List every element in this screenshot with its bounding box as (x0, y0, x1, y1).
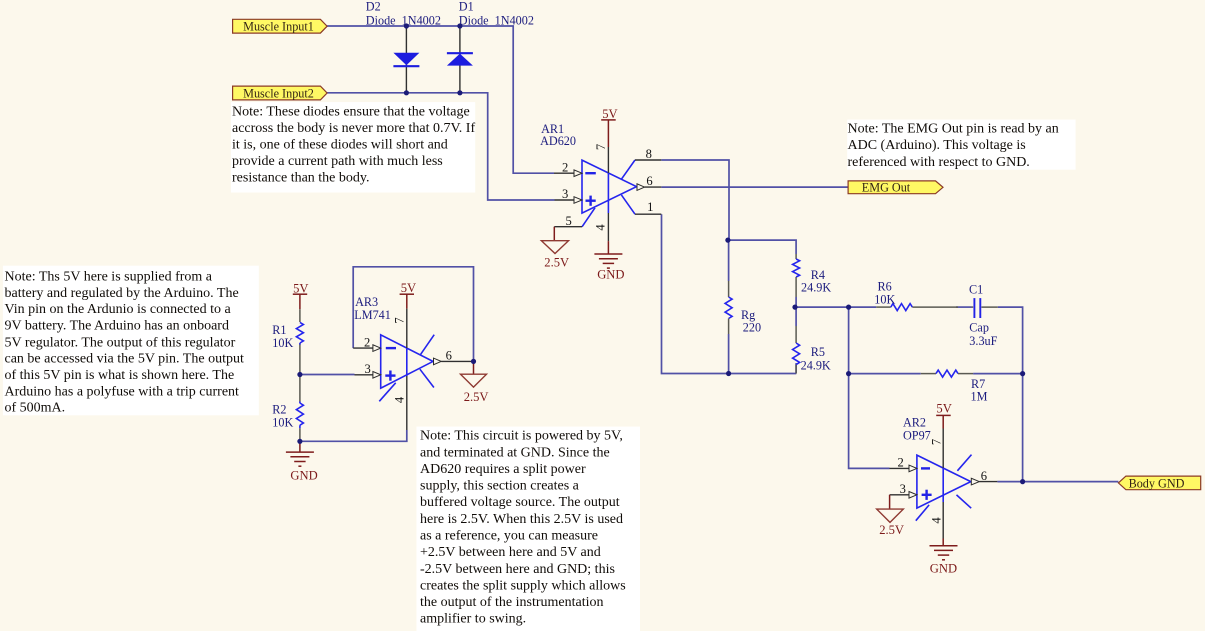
svg-text:2.5V: 2.5V (879, 523, 904, 537)
AR1 pin 1 (635, 200, 661, 214)
svg-text:resistance than the body.: resistance than the body. (232, 171, 370, 186)
svg-text:6: 6 (446, 348, 452, 362)
junction R7 right node (1020, 371, 1025, 376)
svg-text:8: 8 (646, 147, 652, 161)
diode D2 (366, 0, 441, 93)
ground GND (below R2) (286, 441, 318, 482)
svg-text:D1: D1 (459, 0, 474, 14)
AR2 pin 2 (890, 455, 917, 471)
svg-text:Note: The EMG Out pin is read: Note: The EMG Out pin is read by an (848, 122, 1059, 137)
wire mid node to R6 node (795, 306, 876, 308)
svg-text:creates the split supply which: creates the split supply which allows (420, 578, 626, 593)
svg-text:LM741: LM741 (354, 308, 391, 322)
svg-text:2.5V: 2.5V (544, 255, 569, 269)
AR1 pin 6 output (637, 174, 661, 190)
junction D1 anode on input2 wire (457, 90, 462, 95)
wire R4 bottom to mid node (795, 297, 797, 307)
wire AR1 pin 6 to EMG Out (661, 186, 848, 188)
wire R6 to C1 (956, 306, 972, 308)
junction Rg bottom node (726, 371, 731, 376)
svg-text:OP97: OP97 (903, 429, 931, 443)
svg-text:Note: This circuit is powered: Note: This circuit is powered by 5V, (420, 429, 623, 444)
wire Rg top to R4 top (728, 240, 796, 254)
AR3 pin 2 (353, 335, 381, 351)
svg-text:AR3: AR3 (355, 295, 378, 309)
svg-text:6: 6 (981, 469, 987, 483)
svg-text:10K: 10K (272, 336, 293, 350)
AR3 pin 4 (393, 376, 407, 430)
svg-text:provide a current path with mu: provide a current path with much less (232, 154, 443, 169)
svg-text:battery and regulated by the A: battery and regulated by the Arduino. Th… (5, 286, 239, 301)
svg-text:Cap: Cap (969, 321, 989, 335)
svg-text:C1: C1 (969, 282, 983, 296)
junction D2 cathode on input2 wire (404, 90, 409, 95)
svg-text:Diode 1N4002: Diode 1N4002 (366, 14, 441, 28)
svg-text:as a reference, you can measur: as a reference, you can measure (420, 529, 598, 544)
AR1 pin 7 (594, 144, 608, 173)
svg-text:ADC (Arduino). This voltage is: ADC (Arduino). This voltage is (848, 138, 1026, 153)
svg-text:4: 4 (930, 517, 944, 524)
svg-text:referenced with respect to GND: referenced with respect to GND. (848, 155, 1030, 170)
wire Muscle Input2 to AR1 pin 3 (327, 93, 554, 200)
wire R5 top (795, 307, 797, 326)
power 5V (above AR3 pin 7) (400, 281, 417, 309)
resistor Rg (725, 281, 761, 334)
svg-text:R5: R5 (811, 345, 825, 359)
svg-text:AD620 requires a split power: AD620 requires a split power (420, 462, 586, 477)
svg-text:the output of the instrumentat: the output of the instrumentation (420, 595, 604, 610)
svg-text:5V: 5V (401, 281, 416, 295)
op-amp AR1 AD620 (540, 122, 636, 227)
note frame diodes (231, 102, 475, 192)
svg-text:it is, one of these diodes wil: it is, one of these diodes will short an… (232, 138, 448, 153)
note frame split supply (417, 427, 641, 631)
junction Rg top node (725, 238, 730, 243)
svg-text:D2: D2 (366, 0, 381, 14)
op-amp AR3 LM741 (354, 295, 434, 401)
AR3 pin 3 (355, 362, 381, 378)
note frame EMG out (847, 120, 1075, 170)
svg-text:9V battery. The Arduino has an: 9V battery. The Arduino has an onboard (5, 319, 229, 334)
svg-text:1M: 1M (971, 389, 988, 403)
svg-text:Note: Ths 5V here is supplied: Note: Ths 5V here is supplied from a (5, 270, 213, 285)
port EMG Out (848, 181, 943, 195)
wire AR3 feedback loop (353, 267, 473, 362)
junction R6 input node (846, 305, 851, 310)
wire R1 R2 node to AR3 pin 3 (300, 374, 355, 376)
junction AR2 output node (1020, 479, 1025, 484)
svg-text:24.9K: 24.9K (801, 358, 831, 372)
wire AR1 pin 8 to Rg top (661, 160, 729, 240)
svg-text:AR2: AR2 (903, 416, 926, 430)
port Body GND (1118, 476, 1200, 490)
svg-text:buffered voltage source. The o: buffered voltage source. The output (420, 495, 620, 510)
AR1 pin 3 (555, 187, 583, 203)
wire C1 to right column (998, 307, 1023, 482)
svg-text:3: 3 (562, 187, 568, 201)
junction R1 R2 divider node (297, 372, 302, 377)
svg-text:EMG Out: EMG Out (862, 181, 911, 195)
svg-text:here is 2.5V. When this 2.5V i: here is 2.5V. When this 2.5V is used (420, 512, 623, 527)
port Muscle Input1 (233, 19, 328, 33)
svg-text:R1: R1 (272, 323, 286, 337)
AR2 pin 6 output (971, 469, 1022, 485)
AR3 pin 6 output (434, 348, 474, 364)
AR1 pin 4 (594, 213, 609, 241)
svg-text:Muscle Input1: Muscle Input1 (243, 20, 314, 34)
svg-text:7: 7 (594, 144, 608, 150)
svg-text:5V: 5V (936, 402, 951, 416)
junction R2 bottom GND node (297, 439, 302, 444)
svg-text:Arduino has a polyfuse with a: Arduino has a polyfuse with a trip curre… (5, 384, 240, 399)
svg-text:10K: 10K (272, 415, 293, 429)
wire Muscle Input1 to AR1 pin 2 (327, 26, 554, 173)
svg-text:5V: 5V (602, 107, 617, 121)
svg-text:Diode 1N4002: Diode 1N4002 (459, 14, 534, 28)
svg-text:supply, this section creates a: supply, this section creates a (420, 479, 580, 494)
svg-text:2: 2 (364, 335, 370, 349)
ground GND (below AR1) (594, 241, 624, 281)
power 2.5V (AR3 output) (461, 361, 489, 404)
svg-text:24.9K: 24.9K (801, 281, 831, 295)
svg-text:amplifier to swing.: amplifier to swing. (420, 612, 526, 627)
svg-text:can be accessed via the 5V pin: can be accessed via the 5V pin. The outp… (5, 352, 244, 367)
svg-text:4: 4 (594, 224, 608, 231)
ground GND (below AR2) (930, 539, 958, 576)
svg-text:and terminated at GND. Since t: and terminated at GND. Since the (420, 445, 610, 460)
svg-text:GND: GND (597, 267, 624, 281)
svg-text:Vin pin on the Ardunio is conn: Vin pin on the Ardunio is connected to a (5, 302, 232, 317)
svg-text:3: 3 (365, 362, 371, 376)
svg-text:7: 7 (930, 439, 944, 445)
junction R4 R5 mid node (792, 305, 797, 310)
svg-text:7: 7 (393, 317, 407, 323)
svg-text:-2.5V between here and GND; th: -2.5V between here and GND; this (420, 562, 615, 577)
AR1 pin 8 (635, 147, 661, 161)
resistor R7 (921, 370, 988, 403)
svg-text:1: 1 (647, 200, 653, 214)
svg-text:4: 4 (393, 396, 407, 403)
power 5V (above AR2) (936, 402, 952, 429)
svg-text:accross the body is never more: accross the body is never more that 0.7V… (232, 121, 475, 136)
wire R7 right (973, 373, 1023, 375)
resistor R1 (272, 309, 303, 374)
svg-text:2: 2 (562, 160, 568, 174)
AR2 pin 4 (930, 502, 944, 539)
svg-text:2.5V: 2.5V (464, 390, 489, 404)
svg-text:Muscle Input2: Muscle Input2 (243, 86, 314, 100)
svg-text:GND: GND (290, 469, 317, 483)
svg-text:+2.5V between here and 5V and: +2.5V between here and 5V and (420, 545, 601, 560)
svg-text:3: 3 (900, 482, 906, 496)
power 5V (above AR1) (601, 107, 617, 147)
wire AR2 out to Body GND (1023, 481, 1119, 483)
resistor R5 (793, 326, 831, 374)
resistor R6 (874, 280, 958, 311)
port Muscle Input2 (233, 86, 328, 100)
svg-text:5: 5 (566, 214, 572, 228)
wire R2 top (299, 375, 301, 402)
svg-text:of this 5V pin is what is show: of this 5V pin is what is shown here. Th… (5, 368, 235, 383)
wire AR1 pin 1 to bottom rail (662, 214, 797, 373)
svg-text:3.3uF: 3.3uF (969, 334, 997, 348)
AR1 pin 2 (554, 160, 582, 176)
AR1 pin 5 (554, 214, 582, 228)
svg-text:6: 6 (646, 174, 652, 188)
note frame 5V supply (3, 266, 259, 416)
power 2.5V (AR2 pin 3) (877, 495, 904, 537)
svg-text:GND: GND (930, 562, 957, 576)
resistor R2 (272, 402, 303, 442)
svg-text:Body GND: Body GND (1129, 476, 1185, 490)
wire AR3 pin 4 to R2 bottom (300, 430, 407, 441)
svg-text:10K: 10K (874, 292, 895, 306)
junction D1 cathode on input1 wire (457, 23, 462, 28)
svg-text:Note: These diodes ensure that: Note: These diodes ensure that the volta… (232, 104, 470, 119)
junction R7 left node (846, 371, 851, 376)
AR2 pin 7 (930, 429, 944, 468)
svg-text:2: 2 (898, 455, 904, 469)
wire Rg segments (728, 240, 730, 281)
svg-text:of 500mA.: of 500mA. (5, 401, 66, 416)
svg-text:220: 220 (743, 320, 761, 334)
power 5V (above R1) (293, 282, 309, 310)
power 2.5V (AR1 pin 5) (541, 227, 569, 270)
wire feedback column to AR2 pin 2 (849, 307, 890, 468)
svg-text:AD620: AD620 (540, 134, 576, 148)
op-amp AR2 OP97 (903, 416, 972, 521)
junction D2 anode on input1 wire (404, 23, 409, 28)
capacitor C1 (969, 282, 998, 348)
wire R1 bottom (299, 343, 301, 345)
wire R5 bottom stub (795, 363, 797, 373)
AR3 pin 7 (393, 309, 407, 348)
junction AR3 output node 2.5V (471, 359, 476, 364)
diode D1 (447, 0, 534, 93)
svg-text:5V regulator. The output of th: 5V regulator. The output of this regulat… (5, 335, 236, 350)
wire R7 left (849, 373, 921, 375)
AR2 pin 3 (890, 482, 917, 498)
resistor R4 (793, 254, 832, 297)
